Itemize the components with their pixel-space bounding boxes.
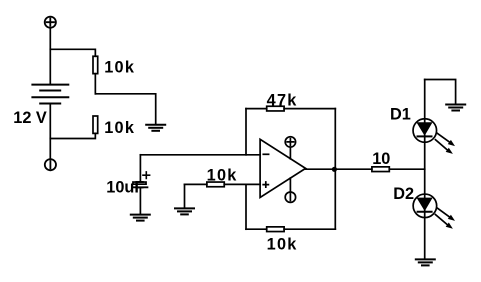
wire ground to R3	[185, 183, 207, 185]
wire feedback left bottom (10k to noninv input)	[245, 184, 247, 229]
wire top rail left	[246, 108, 267, 110]
capacitor C1 plates	[133, 182, 148, 187]
resistor R3 10k	[207, 182, 224, 187]
svg-text:12 V: 12 V	[13, 109, 47, 127]
resistor R4 10	[372, 167, 389, 172]
resistor R2 10k	[93, 116, 98, 133]
op-amp inverting input mark	[263, 153, 268, 155]
wire op-amp output	[306, 168, 372, 170]
wire top to ground corner	[425, 80, 456, 104]
LED D1 light arrows	[435, 133, 455, 154]
LED D2	[413, 194, 437, 218]
wire ground stub for R3	[184, 184, 186, 207]
terminal - (battery negative)	[45, 159, 56, 170]
junction dot (output node)	[332, 167, 337, 172]
svg-text:10: 10	[372, 150, 390, 168]
svg-text:47k: 47k	[267, 92, 298, 110]
wire cap top	[139, 155, 141, 181]
wire feedback left top (47k to inv input)	[245, 109, 247, 155]
wire right rail (output)	[334, 109, 336, 230]
op-amp positive supply symbol	[285, 137, 295, 159]
ground (R3 input)	[175, 208, 194, 214]
op-amp noninverting input mark	[263, 182, 268, 187]
ground (capacitor)	[131, 215, 150, 221]
svg-text:10k: 10k	[104, 58, 135, 76]
resistor R6 10k	[267, 227, 284, 232]
wire cap bottom to ground	[139, 188, 141, 213]
LED D1	[413, 119, 437, 143]
wire R4 to LED column	[389, 168, 424, 170]
resistor R5 47k	[267, 106, 284, 111]
resistor R1 10k	[93, 56, 98, 73]
wire terminal+ to battery top	[49, 28, 51, 85]
svg-text:D2: D2	[393, 185, 414, 203]
wire D2 to ground	[424, 169, 426, 258]
svg-text:D1: D1	[390, 106, 411, 124]
svg-text:10k: 10k	[104, 119, 135, 137]
battery V1 plates	[32, 85, 68, 104]
wire inverting input row	[140, 154, 260, 156]
ground (divider midpoint)	[146, 125, 165, 131]
op-amp U1 triangle	[260, 139, 306, 197]
capacitor plus mark	[143, 172, 150, 179]
wire bottom rail right	[284, 228, 335, 230]
wire top rail right	[284, 108, 335, 110]
ground (bottom right)	[416, 259, 435, 265]
terminal + (battery positive)	[45, 17, 56, 28]
svg-text:10k: 10k	[207, 167, 238, 185]
ground (top right)	[446, 105, 465, 111]
LED D2 light arrows	[435, 208, 455, 229]
wire battery bottom to terminal -	[49, 104, 51, 160]
svg-text:10k: 10k	[267, 235, 298, 253]
wire R2 bottom to battery negative	[50, 133, 95, 138]
wire top branch to R1	[50, 49, 95, 56]
wire bottom rail left	[246, 228, 267, 230]
wire node to ground	[95, 94, 155, 124]
wire R3 to noninverting input	[224, 183, 260, 185]
wire LED column D1 up	[424, 80, 426, 170]
op-amp negative supply symbol	[285, 178, 295, 202]
wire R1 bottom to node	[94, 74, 96, 94]
